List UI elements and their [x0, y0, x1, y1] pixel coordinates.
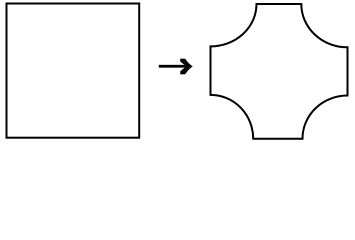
- arrow shaft: [159, 65, 187, 68]
- rounded cross shape: [211, 4, 348, 139]
- square: [7, 4, 140, 138]
- arrow head: [180, 59, 193, 75]
